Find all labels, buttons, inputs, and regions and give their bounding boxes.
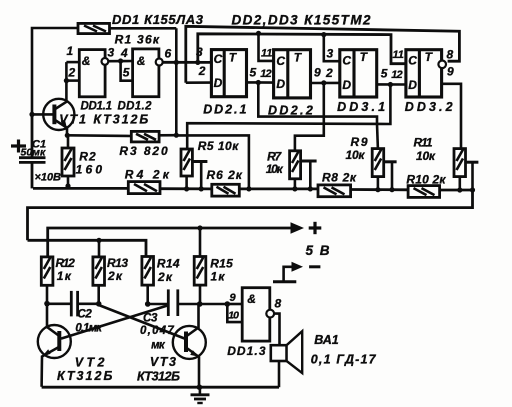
node dot R7 bottom <box>292 186 297 191</box>
node dot DD1.3 input <box>225 301 231 307</box>
svg-text:10к: 10к <box>416 149 436 163</box>
svg-text:DD1.3: DD1.3 <box>227 344 266 358</box>
svg-text:8: 8 <box>447 48 454 62</box>
gate DD1.2 <box>133 49 163 97</box>
wire bus B clock top <box>198 34 406 64</box>
flip-flop DD3.2 <box>406 50 442 97</box>
wire W2 from R5 top corner to DD3.1 Q drop <box>187 85 390 150</box>
svg-text:10к: 10к <box>266 162 284 176</box>
label plus 5V <box>309 222 322 234</box>
svg-text:C: C <box>342 54 351 68</box>
gate DD1.1 <box>79 50 108 97</box>
wire R9 top drop <box>376 124 379 149</box>
tap wire R9 <box>384 162 397 190</box>
wire DD1.1 out to DD1.2 <box>108 60 132 63</box>
svg-text:мк: мк <box>151 340 166 352</box>
wire C2 to node B <box>78 302 99 305</box>
wire bus A into DD2.1 D <box>186 81 212 84</box>
resistor R14 <box>142 257 154 305</box>
resistor R11 <box>454 149 466 190</box>
svg-text:DD2.1: DD2.1 <box>203 102 246 116</box>
svg-text:9: 9 <box>314 65 321 79</box>
svg-text:5: 5 <box>381 67 388 81</box>
node dot R9 bottom <box>375 187 380 192</box>
resistor R9 <box>372 149 384 190</box>
wire pin6 vertical <box>175 28 178 135</box>
svg-text:2к: 2к <box>157 270 173 284</box>
node dot B R13/C2 <box>96 301 102 307</box>
svg-text:DD1.2: DD1.2 <box>118 101 153 113</box>
resistor R13 <box>93 257 105 304</box>
wire VT1 base <box>32 113 54 116</box>
wire bottom rail <box>42 386 279 389</box>
resistor R1 <box>78 23 110 33</box>
resistor R4 <box>128 182 160 194</box>
wire line3 to R13 R14 tops <box>28 240 147 256</box>
svg-text:DD1.1: DD1.1 <box>81 101 113 113</box>
wire cross coupling B to VT3 base <box>99 305 185 339</box>
svg-text:50мк: 50мк <box>21 147 46 159</box>
wire DD2.1 Q to DD2.2 D <box>247 81 274 84</box>
wire pin6 output to DD2.1 C <box>163 61 212 64</box>
svg-text:C: C <box>408 54 417 68</box>
svg-text:VT3: VT3 <box>150 355 176 369</box>
node dot rail right end <box>470 187 475 192</box>
svg-text:R12: R12 <box>56 256 76 270</box>
inverter circle DD3.2 pin 8 <box>438 61 446 69</box>
svg-text:&: & <box>137 54 146 68</box>
wire bus A feedback top <box>186 26 460 82</box>
svg-text:R14: R14 <box>157 257 180 271</box>
svg-text:2: 2 <box>325 66 333 80</box>
svg-text:6: 6 <box>165 46 172 60</box>
wire top-left from base node to R1 <box>32 28 78 115</box>
wire DD1.1 input loop pins 1,2 <box>66 61 79 64</box>
svg-text:8: 8 <box>275 297 282 311</box>
svg-text:T: T <box>294 51 303 65</box>
svg-text:T: T <box>360 50 369 64</box>
svg-text:R8 2к: R8 2к <box>322 171 357 185</box>
wire node box around R5 label to rail <box>176 135 249 189</box>
svg-text:1: 1 <box>398 49 404 61</box>
wire DD3.2 pin9 to R11 <box>442 84 461 150</box>
node dot busB DD2.2 drop <box>256 31 261 36</box>
wire rail R4 to R6 <box>160 187 212 190</box>
svg-text:5: 5 <box>123 66 130 80</box>
svg-text:R2: R2 <box>79 150 96 164</box>
wire clock drop DD2.2 C <box>259 33 274 61</box>
svg-text:9: 9 <box>230 292 237 304</box>
svg-text:&: & <box>82 54 91 68</box>
resistor R10 <box>408 186 440 198</box>
svg-text:3: 3 <box>196 45 203 59</box>
node dot R7 tap <box>308 186 313 191</box>
svg-text:DD3.1: DD3.1 <box>337 100 385 114</box>
wire R15 top stub <box>199 228 202 257</box>
wire DD2.2 Q drop to R7 <box>295 83 324 151</box>
speaker BA1 <box>271 331 302 387</box>
svg-text:С2: С2 <box>77 309 92 321</box>
svg-text:T: T <box>229 51 238 65</box>
node dot DD2.2 Q drop <box>321 80 326 85</box>
resistor R6 <box>212 184 240 196</box>
resistor R2 <box>62 135 74 188</box>
wire R3 right lead <box>159 134 176 137</box>
resistor R15 <box>194 257 206 305</box>
flip-flop DD2.1 <box>211 50 246 97</box>
wire R13 top stub <box>98 240 101 257</box>
node dot pin6/busB <box>195 60 200 65</box>
node dot R5 tap <box>199 186 204 191</box>
resistor R5 <box>181 149 192 189</box>
node dot DD2.1 Q drop <box>256 80 261 85</box>
wire +5V line2 <box>48 228 292 257</box>
svg-text:2: 2 <box>198 64 206 78</box>
wire long return line1 <box>28 190 473 240</box>
wire node A to C2 <box>47 302 71 305</box>
svg-text:D: D <box>408 78 417 92</box>
node dot R15 top <box>197 225 202 230</box>
flip-flop DD3.1 <box>340 50 377 97</box>
svg-text:DD3.2: DD3.2 <box>405 100 453 114</box>
svg-text:R15: R15 <box>210 257 233 271</box>
node dot R2 bottom <box>65 183 70 188</box>
svg-text:0: 0 <box>233 310 239 322</box>
svg-text:R1 36к: R1 36к <box>115 33 160 47</box>
node dot DD3.1 Q drop <box>388 82 393 87</box>
resistor R8 <box>318 185 351 197</box>
node dot R13 top <box>96 238 101 243</box>
flip-flop DD2.2 <box>274 50 311 98</box>
svg-text:2к: 2к <box>107 269 123 283</box>
wire DD3.1 Q to DD3.2 D <box>377 83 406 86</box>
wire cross coupling C3 to VT2 base <box>61 306 168 339</box>
svg-text:9: 9 <box>447 65 454 79</box>
svg-text:VT1 КТ312Б: VT1 КТ312Б <box>59 113 148 127</box>
svg-text:T: T <box>425 50 434 64</box>
wire R1 right lead to pin6 vertical <box>110 27 177 30</box>
node dot D R15/C3/VT3 <box>197 301 203 307</box>
capacitor C1 <box>19 115 46 188</box>
node dot pin6/R1 <box>174 60 179 65</box>
svg-text:4: 4 <box>120 46 128 60</box>
arrowhead +5V <box>291 222 305 233</box>
node dot box wire at rail <box>246 186 251 191</box>
svg-text:DD2,DD3 К155ТМ2: DD2,DD3 К155ТМ2 <box>232 12 371 27</box>
wire W1 from DD2.1 Q down and right <box>258 83 377 125</box>
resistor R7 <box>290 151 301 189</box>
wire DD1.3 input loop pins 9,10 <box>227 303 242 306</box>
transistor VT2 <box>38 304 71 387</box>
svg-text:DD1 К155ЛА3: DD1 К155ЛА3 <box>112 12 204 27</box>
svg-text:D: D <box>214 76 223 90</box>
svg-text:×10В: ×10В <box>35 172 62 184</box>
wire rail R10 to end <box>440 189 473 192</box>
wire emitter to R3 <box>67 134 131 137</box>
resistor R3 <box>131 131 159 142</box>
svg-text:2: 2 <box>68 66 76 80</box>
svg-text:10к: 10к <box>346 148 366 162</box>
svg-text:R4 2к: R4 2к <box>125 168 170 182</box>
svg-text:1к: 1к <box>57 269 72 283</box>
svg-text:C: C <box>276 54 285 68</box>
wire node D to DD1.3 input <box>200 303 228 306</box>
svg-text:3: 3 <box>108 46 115 60</box>
wire rail R6 to R8 <box>239 187 318 190</box>
node dot C R14/C3 <box>145 301 151 307</box>
svg-text:5: 5 <box>250 66 257 80</box>
svg-text:3: 3 <box>327 47 334 61</box>
svg-text:D: D <box>342 78 351 92</box>
wire DD2.2 Q to DD3.1 D <box>311 82 340 85</box>
tap wire R7 <box>301 161 317 189</box>
svg-text:1к: 1к <box>211 270 226 284</box>
tap wire R5 <box>193 162 208 189</box>
capacitor C1 plus sign <box>11 140 26 153</box>
svg-text:2: 2 <box>265 68 272 80</box>
svg-text:R5 10к: R5 10к <box>198 139 240 153</box>
svg-text:R11: R11 <box>414 136 433 150</box>
node dot VT1 collector / DD1.1 inputs <box>64 78 69 83</box>
ground <box>191 387 210 403</box>
node dot R9 tap <box>389 187 394 192</box>
svg-text:1: 1 <box>266 48 272 60</box>
wire rail R8 to R10 <box>351 188 409 191</box>
node dot R1/base <box>29 112 34 117</box>
wire clock drop DD3.1 C <box>324 35 340 62</box>
svg-text:5В: 5В <box>306 243 330 258</box>
minus terminal <box>273 262 320 282</box>
svg-text:D: D <box>276 77 285 91</box>
svg-text:0,1 ГД-17: 0,1 ГД-17 <box>311 353 377 367</box>
resistor R12 <box>41 257 53 304</box>
svg-text:R3 820: R3 820 <box>119 144 168 158</box>
wire DD1.3 out to speaker <box>274 314 279 346</box>
node dot VT1 emitter <box>65 133 70 138</box>
svg-text:КТ312Б: КТ312Б <box>137 370 180 384</box>
node dot busB DD3.1 drop <box>321 32 326 37</box>
transistor VT1 <box>43 81 74 136</box>
node dot A R12/C2/VT2 <box>44 301 50 307</box>
svg-text:VT2: VT2 <box>75 356 105 370</box>
wire node C to C3 <box>148 303 169 306</box>
gate DD1.3 <box>242 288 274 341</box>
capacitor C2 <box>71 291 77 317</box>
svg-text:160: 160 <box>76 163 103 177</box>
svg-text:КТ312Б: КТ312Б <box>57 369 112 383</box>
transistor VT3 <box>173 304 206 387</box>
node dot R3/pin6 vertical <box>174 133 179 138</box>
wire C3 to node D <box>178 303 200 306</box>
wire rail start C1/R2 <box>33 187 128 190</box>
node dot R5 bottom <box>184 186 189 191</box>
node dot VT3 emitter rail <box>197 384 203 390</box>
svg-text:ВА1: ВА1 <box>314 333 338 347</box>
svg-text:2: 2 <box>396 69 403 81</box>
wire DD1.2 input loop pin 5 <box>121 61 133 81</box>
svg-text:&: & <box>247 292 256 306</box>
svg-text:C: C <box>214 52 223 66</box>
svg-text:1: 1 <box>67 44 74 58</box>
svg-text:R13: R13 <box>107 256 128 270</box>
tap wire R11 <box>466 162 479 190</box>
svg-text:R6 2к: R6 2к <box>207 168 243 182</box>
node dot R11 bottom <box>457 187 462 192</box>
node dot pins 4,5 <box>118 58 123 63</box>
capacitor C3 <box>168 289 178 316</box>
svg-text:R10 2к: R10 2к <box>406 172 446 186</box>
